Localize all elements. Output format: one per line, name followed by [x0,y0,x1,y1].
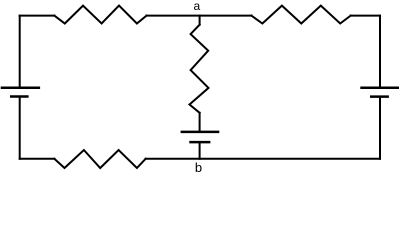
wire right side lower [379,97,381,159]
wire top-middle segment [147,15,252,17]
wire bottom-left segment [20,158,55,160]
svg-text:a: a [194,0,201,13]
wire middle branch to battery [199,113,201,132]
battery V2 (right) long plate [360,86,399,89]
battery V3 (middle) long plate [181,131,220,134]
battery V1 (left) long plate [1,86,40,89]
wire top-left segment [20,15,55,17]
wire bottom-right segment [146,158,380,160]
node a stub wire [199,16,201,25]
wire left side upper [19,16,21,87]
battery V3 (middle) short plate [189,141,210,144]
resistor R1 (top left) [54,6,146,24]
resistor R2 (top right) [251,6,350,24]
battery V2 (right) short plate [370,95,389,98]
wire top-right segment [351,15,380,17]
wire middle branch to node b [199,142,201,159]
resistor R3 (bottom) [54,150,145,168]
wire right side upper [379,16,381,87]
svg-text:b: b [195,160,202,175]
resistor R4 (middle vertical) [190,25,209,113]
battery V1 (left) short plate [10,95,29,98]
wire left side lower [19,97,21,159]
